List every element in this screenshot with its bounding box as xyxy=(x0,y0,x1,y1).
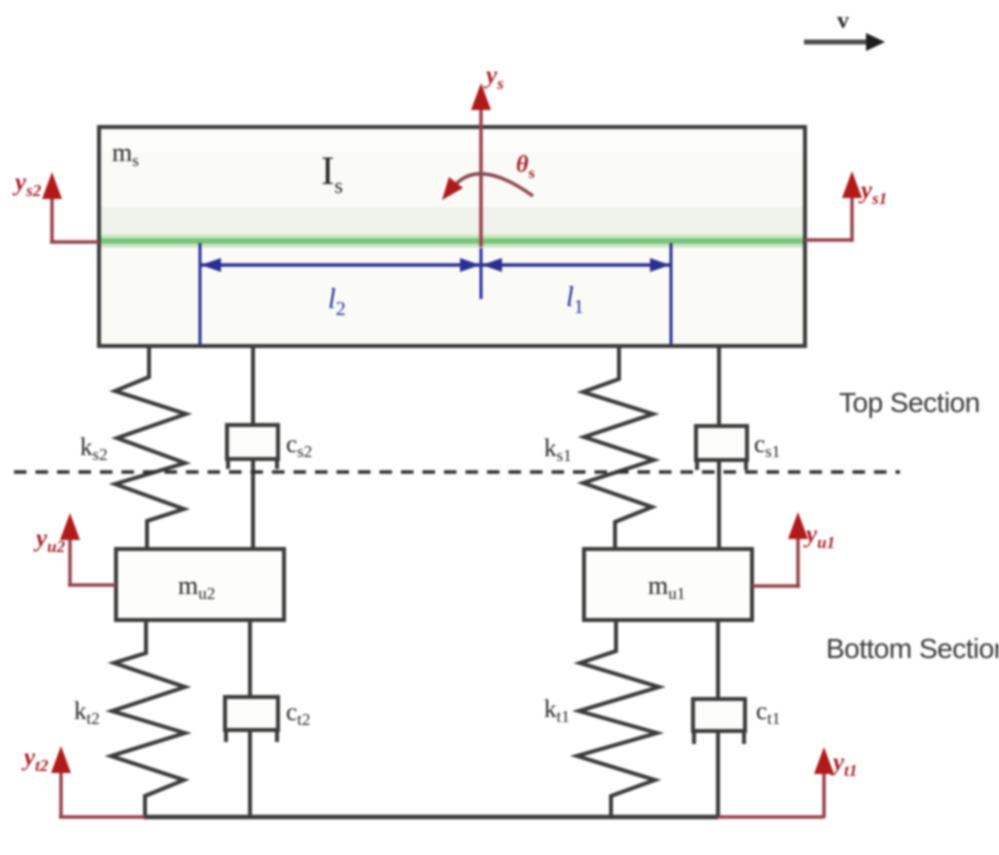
right axis y_s1 xyxy=(805,171,887,242)
dimension tick left xyxy=(199,243,202,345)
svg-text:v: v xyxy=(837,8,849,34)
spring k_t1 xyxy=(544,620,659,818)
spring k_s2 xyxy=(80,346,186,549)
unsprung mass m_u2 xyxy=(116,549,284,620)
ground line xyxy=(143,815,718,820)
damper c_t1 xyxy=(693,620,780,818)
damper c_s1 xyxy=(696,348,780,549)
pitch arc theta_s xyxy=(442,152,535,200)
axis y_u2 xyxy=(33,513,116,585)
dashed section divider xyxy=(14,470,900,474)
unsprung mass m_u1 xyxy=(584,549,752,620)
dimension line l1 xyxy=(481,258,671,318)
axis y_t1 xyxy=(718,747,857,818)
axis y_u1 xyxy=(752,512,835,588)
sprung mass body m_s xyxy=(99,127,805,346)
axis y_t2 xyxy=(21,744,145,818)
green axle line xyxy=(101,235,803,248)
dimension tick center xyxy=(480,248,483,299)
damper c_t2 xyxy=(225,620,310,818)
velocity arrow v xyxy=(804,8,885,51)
left axis y_s2 xyxy=(12,169,99,242)
svg-text:Bottom Section: Bottom Section xyxy=(826,633,999,664)
dimension tick right xyxy=(670,243,673,345)
spring k_s1 xyxy=(544,348,654,549)
damper c_s2 xyxy=(227,346,312,549)
spring k_t2 xyxy=(74,620,185,818)
svg-text:Top Section: Top Section xyxy=(839,387,980,418)
center axis y_s xyxy=(471,62,504,247)
dimension line l2 xyxy=(200,258,481,320)
